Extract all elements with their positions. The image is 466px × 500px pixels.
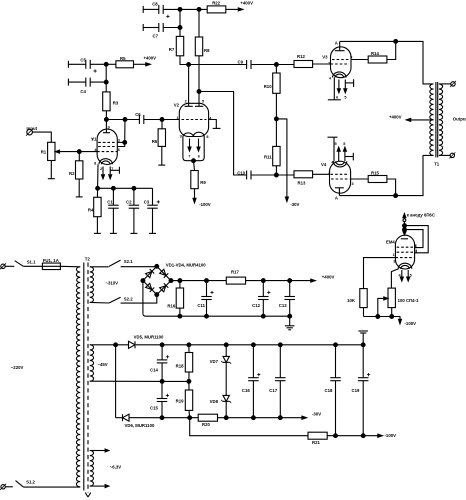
resistor R8	[195, 37, 210, 56]
svg-text:2: 2	[185, 99, 187, 103]
svg-text:S2.1: S2.1	[124, 259, 133, 264]
svg-text:5: 5	[410, 273, 412, 277]
input terminal	[26, 126, 51, 142]
EM4 anode arrow	[403, 231, 406, 235]
svg-text:R14: R14	[371, 51, 379, 56]
resistor R3	[103, 92, 119, 111]
svg-text:~45V: ~45V	[98, 362, 108, 367]
svg-text:T2: T2	[85, 257, 91, 262]
capacitor C8	[143, 1, 169, 18]
svg-text:VD7: VD7	[210, 359, 219, 364]
svg-text:R7: R7	[169, 47, 175, 52]
svg-text:R13: R13	[298, 181, 306, 186]
svg-text:5: 5	[343, 142, 345, 146]
V4 cathode arcs	[333, 161, 347, 167]
T2 45V winding	[90, 345, 162, 382]
svg-text:C1: C1	[107, 199, 113, 204]
svg-text:5: 5	[344, 96, 346, 100]
EM4 node 2	[403, 228, 407, 232]
V4 heater arrows	[334, 142, 346, 161]
transformer T1	[430, 82, 443, 166]
capacitor C12	[252, 281, 270, 317]
svg-text:C15: C15	[150, 406, 158, 411]
svg-text:R21: R21	[312, 440, 320, 445]
capacitor C2	[126, 188, 139, 233]
6.3V arrows	[105, 449, 109, 488]
resistor R9	[191, 161, 207, 189]
resistor R4	[88, 188, 101, 233]
svg-text:V4: V4	[321, 162, 327, 167]
tube EM4 envelope	[386, 235, 415, 269]
svg-text:C14: C14	[150, 368, 158, 373]
svg-text:C12: C12	[252, 303, 260, 308]
resistor R21	[308, 432, 378, 445]
resistor R7	[169, 36, 184, 55]
EM4 cathode	[398, 263, 412, 269]
svg-text:+400V: +400V	[322, 275, 335, 280]
svg-text:A: A	[335, 196, 338, 201]
svg-text:1: 1	[176, 116, 178, 120]
V2 pin4 lead to bar	[209, 120, 221, 129]
V3 grid rows	[328, 56, 352, 66]
svg-text:R2: R2	[69, 171, 75, 176]
svg-text:C2: C2	[126, 199, 132, 204]
svg-text:R1: R1	[41, 149, 47, 154]
V2 grid row	[176, 116, 212, 121]
capacitor C7	[143, 23, 182, 39]
svg-text:8: 8	[94, 161, 96, 165]
+400V arrow (top)	[238, 0, 253, 11]
svg-text:R20: R20	[202, 422, 210, 427]
node VD5/VD6 branch	[114, 343, 118, 418]
svg-text:S1.2: S1.2	[26, 479, 35, 484]
svg-text:R3: R3	[113, 100, 119, 105]
svg-text:R12: R12	[297, 54, 305, 59]
switch S1.2	[16, 479, 81, 487]
resistor R6	[152, 120, 166, 166]
-30V arrow	[285, 197, 299, 207]
svg-text:R17: R17	[231, 270, 239, 275]
svg-text:3: 3	[118, 138, 120, 142]
-100V branch down	[190, 418, 308, 436]
capacitor C4	[68, 78, 106, 95]
capacitor C15	[150, 381, 169, 417]
wire cathode node row	[98, 186, 153, 190]
T2 core	[84, 257, 91, 493]
svg-text:3: 3	[180, 135, 182, 139]
-30V arrow (PSU)	[302, 412, 321, 420]
svg-text:R6: R6	[152, 139, 158, 144]
output terminal bottom	[439, 152, 455, 158]
diode VD6	[116, 414, 199, 428]
capacitor C13	[279, 281, 295, 317]
EM4 cathode wire to pot	[391, 269, 398, 288]
pot wiper	[378, 297, 388, 317]
wire R8 bottom down	[198, 56, 200, 107]
diode VD5	[129, 335, 364, 349]
svg-text:2: 2	[100, 167, 102, 171]
svg-text:1: 1	[393, 253, 395, 257]
-100V arrow (R9)	[193, 189, 211, 208]
svg-text:4: 4	[329, 76, 332, 80]
svg-text:S2.2: S2.2	[124, 296, 133, 301]
mains terminal top	[0, 263, 14, 269]
svg-text:+400V: +400V	[240, 0, 253, 5]
wire R8 top	[198, 9, 200, 37]
diode VD8 zener	[210, 395, 232, 419]
EM4 grid rows	[393, 247, 414, 263]
svg-text:5: 5	[334, 142, 336, 146]
svg-text:3: 3	[393, 259, 395, 263]
V3 cathode	[329, 72, 346, 81]
V4 screen lead to R15	[351, 178, 369, 180]
V3 anode line to T1	[340, 40, 434, 84]
switch S1.1	[15, 259, 43, 266]
svg-text:-100V: -100V	[199, 202, 211, 207]
earth (PSU)	[285, 316, 295, 330]
svg-text:10K: 10K	[347, 298, 356, 303]
V4 heater tick	[345, 153, 353, 161]
node V2 right anode / C10 branch	[197, 90, 247, 175]
resistor R15	[368, 171, 395, 196]
svg-text:C16: C16	[242, 388, 250, 393]
svg-text:-100V: -100V	[405, 321, 417, 326]
svg-text:C5: C5	[80, 58, 86, 63]
ground R2	[76, 179, 83, 197]
V2 heater arrows	[188, 139, 200, 159]
T2 6.3V winding	[90, 451, 121, 487]
EM4 grid lead to 10K	[364, 258, 396, 289]
capacitor C19	[352, 345, 371, 436]
svg-text:R19: R19	[176, 399, 184, 404]
svg-text:R4: R4	[88, 207, 94, 212]
V2 cathode box	[183, 137, 204, 163]
svg-text:C10: C10	[237, 170, 245, 175]
V3 heater arrows	[336, 80, 347, 100]
potentiometer R1	[41, 142, 97, 160]
wire: top +400V rail	[163, 8, 238, 10]
capacitor C5	[68, 58, 106, 73]
svg-text:VD5, MUR1100: VD5, MUR1100	[134, 335, 164, 340]
resistor R14	[368, 41, 396, 63]
svg-text:R15: R15	[371, 171, 379, 176]
capacitor C18	[325, 345, 341, 436]
svg-text:6: 6	[198, 155, 200, 159]
capacitor C9	[238, 60, 295, 70]
T2 screen ground arrow	[85, 493, 91, 497]
EM4 heater arrows	[398, 270, 411, 281]
svg-text:C7: C7	[153, 34, 159, 39]
bridge + wire to R17	[171, 279, 226, 283]
resistor R18	[176, 345, 193, 382]
V1 pin labels	[91, 138, 119, 153]
V3 heater tick	[345, 79, 353, 87]
svg-text:T1: T1	[434, 161, 440, 166]
V1 cathode wire down	[96, 164, 100, 190]
EM4 target loop outer	[405, 226, 429, 254]
V2 anode plates	[185, 99, 205, 106]
resistor R13	[294, 171, 330, 186]
resistor R16	[167, 281, 183, 317]
V1 grid pin3/6 leads	[117, 120, 126, 147]
svg-text:5: 5	[202, 99, 204, 103]
+400V arrow (T1 tap)	[389, 115, 434, 122]
svg-text:~220V: ~220V	[11, 365, 24, 370]
capacitor C10	[237, 170, 294, 179]
svg-text:C6: C6	[135, 112, 141, 117]
svg-text:7: 7	[188, 155, 190, 159]
resistor 10K	[347, 289, 367, 308]
svg-text:FU1, 1A: FU1, 1A	[43, 258, 59, 263]
-30V rail nodes	[252, 416, 283, 420]
wire R3 bottom / anode node row	[105, 111, 140, 122]
node R10/R11 -30V branch	[275, 117, 287, 197]
svg-text:Input: Input	[27, 126, 38, 131]
node A1	[178, 7, 182, 11]
transformer T2 primary	[76, 267, 80, 487]
capacitor C1	[107, 188, 118, 233]
VD1-VD4 label	[166, 262, 206, 267]
svg-text:Output: Output	[453, 116, 466, 121]
svg-text:+400V: +400V	[389, 115, 402, 120]
svg-text:R11: R11	[264, 154, 272, 159]
svg-text:R22: R22	[212, 0, 220, 5]
tube V3 envelope	[322, 47, 351, 78]
middle rail	[160, 380, 191, 384]
svg-text:S1.1: S1.1	[27, 259, 36, 264]
svg-text:C18: C18	[325, 388, 333, 393]
V3 cathode ground	[328, 78, 341, 100]
svg-text:C3: C3	[144, 199, 150, 204]
svg-text:VD8: VD8	[210, 399, 219, 404]
switch S2.2	[109, 295, 157, 304]
svg-text:C9: C9	[238, 60, 244, 65]
~220V label	[11, 365, 24, 370]
wire R7 bottom to C9 row	[180, 56, 247, 65]
V3 screen lead to R14	[351, 59, 368, 61]
svg-text:C13: C13	[279, 303, 287, 308]
capacitor C17	[269, 345, 285, 418]
Output label	[453, 116, 466, 121]
resistor R12	[294, 54, 331, 67]
resistor R20	[198, 414, 302, 427]
svg-text:C17: C17	[269, 388, 277, 393]
V3 anode	[335, 41, 345, 51]
bridge rectifier VD1-VD4	[141, 264, 173, 296]
svg-text:6: 6	[118, 148, 120, 152]
V1 heater arrows	[100, 167, 113, 179]
resistor R5	[106, 56, 133, 68]
resistor R11	[264, 146, 280, 175]
capacitor C16	[242, 345, 261, 418]
T2 310V winding	[90, 267, 118, 303]
svg-text:100 СП4-1: 100 СП4-1	[398, 298, 419, 303]
potentiometer 100 CП4-1	[388, 288, 419, 308]
switch S2.1	[109, 259, 157, 267]
tube V4 envelope	[321, 161, 351, 193]
capacitor C3 electrolytic	[144, 188, 160, 233]
EM4 target loop inner	[405, 230, 424, 249]
capacitor C6	[135, 112, 179, 124]
svg-text:VD6, MUR1100: VD6, MUR1100	[125, 423, 155, 428]
resistor R10	[264, 65, 280, 147]
wire R17 to C13	[261, 279, 311, 283]
node A2	[197, 7, 201, 11]
resistor R19	[176, 381, 193, 417]
tube V2 envelope	[174, 102, 209, 136]
V1 heater tick	[110, 167, 119, 174]
V1 grid rows	[97, 142, 117, 151]
svg-text:R18: R18	[176, 364, 184, 369]
node C5/R5	[104, 62, 108, 92]
fuse FU1	[42, 258, 80, 270]
node V2 left anode	[187, 63, 191, 107]
svg-text:VD1-VD4, MUR4100: VD1-VD4, MUR4100	[166, 262, 206, 267]
svg-text:8: 8	[206, 135, 208, 139]
svg-text:R5: R5	[120, 56, 126, 61]
V1 anode pin 9	[103, 120, 110, 133]
V4 cathode bar top	[328, 137, 338, 164]
svg-text:C8: C8	[152, 1, 158, 6]
svg-text:C11: C11	[197, 303, 205, 308]
EM4 node 1	[403, 224, 407, 228]
ground rail nodes	[160, 343, 365, 347]
svg-text:EM4: EM4	[386, 240, 395, 245]
resistor R2	[69, 161, 83, 179]
wire R7 top	[179, 9, 181, 36]
+400V arrow (PSU)	[311, 275, 335, 283]
svg-text:R10: R10	[264, 84, 272, 89]
-100V arrow (PSU)	[378, 433, 396, 438]
diode VD7 zener	[210, 345, 232, 396]
svg-text:6: 6	[336, 96, 338, 100]
V4 grid rows	[328, 171, 353, 186]
+400V arrow (R5)	[134, 55, 157, 65]
ground R1	[48, 161, 55, 179]
capacitor C11	[197, 281, 213, 317]
capacitor C14	[150, 345, 169, 382]
EM4 screen bar	[401, 238, 408, 240]
tube V1 envelope	[91, 129, 117, 164]
svg-text:+400V: +400V	[144, 55, 157, 60]
node R2 top	[77, 150, 81, 161]
V1 cathode	[94, 159, 112, 166]
to-anode terminal	[403, 213, 435, 232]
svg-text:V3: V3	[322, 55, 328, 60]
svg-text:C4: C4	[80, 89, 86, 94]
svg-text:-30V: -30V	[312, 412, 321, 417]
svg-text:2: 2	[328, 171, 330, 175]
svg-text:~310V: ~310V	[106, 280, 119, 285]
svg-text:-100V: -100V	[385, 433, 397, 438]
wire pot bottom row	[364, 308, 401, 320]
PSU zero rail	[143, 281, 292, 319]
svg-text:~6,3V: ~6,3V	[110, 464, 121, 469]
svg-text:2: 2	[328, 62, 330, 66]
resistor R17	[226, 270, 263, 285]
svg-text:R9: R9	[200, 180, 206, 185]
svg-text:к аноду 6П6С: к аноду 6П6С	[407, 213, 435, 218]
-100V arrow (EM4)	[399, 319, 417, 326]
svg-text:V2: V2	[174, 102, 180, 107]
output terminal top	[439, 81, 456, 87]
resistor R22	[207, 0, 226, 13]
V4 anode line to T1	[339, 155, 433, 197]
svg-text:C19: C19	[352, 388, 360, 393]
svg-text:R8: R8	[204, 48, 210, 53]
V4 anode	[335, 188, 344, 201]
svg-text:1: 1	[91, 138, 93, 142]
svg-text:3: 3	[352, 182, 354, 186]
mains terminal bottom	[0, 484, 13, 490]
svg-text:-30V: -30V	[290, 202, 299, 207]
V2 cathodes	[180, 132, 209, 139]
earth (bias supply)	[358, 331, 368, 345]
svg-text:A: A	[335, 41, 338, 46]
svg-text:9: 9	[108, 125, 110, 129]
svg-text:R16: R16	[167, 304, 175, 309]
